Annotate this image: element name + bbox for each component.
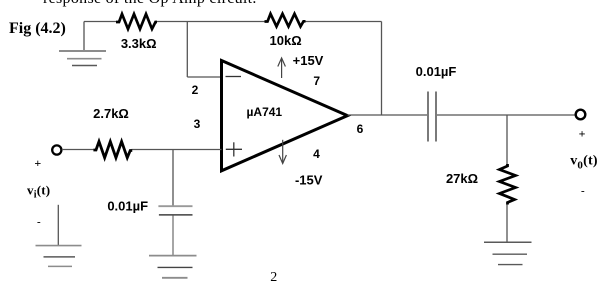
svg-text:2.7kΩ: 2.7kΩ <box>93 106 129 121</box>
svg-text:+: + <box>34 156 41 170</box>
svg-text:7: 7 <box>313 74 320 88</box>
svg-text:0.01µF: 0.01µF <box>416 64 457 79</box>
svg-text:-15V: -15V <box>295 173 323 188</box>
svg-text:2: 2 <box>270 270 277 285</box>
svg-text:2: 2 <box>192 83 199 97</box>
svg-text:3: 3 <box>194 117 201 131</box>
svg-text:4: 4 <box>313 147 320 161</box>
svg-text:-: - <box>581 185 585 197</box>
svg-text:3.3kΩ: 3.3kΩ <box>121 36 157 51</box>
svg-text:27kΩ: 27kΩ <box>446 171 478 186</box>
svg-text:vi(t): vi(t) <box>27 182 50 200</box>
svg-text:10kΩ: 10kΩ <box>270 33 302 48</box>
svg-text:0.01µF: 0.01µF <box>107 199 148 214</box>
svg-text:response of the Op Amp circuit: response of the Op Amp circuit. <box>43 0 257 7</box>
svg-text:+15V: +15V <box>293 53 324 68</box>
svg-text:µA741: µA741 <box>247 105 283 119</box>
svg-text:+: + <box>579 126 586 140</box>
svg-text:6: 6 <box>357 122 364 136</box>
svg-text:v0(t): v0(t) <box>570 154 598 172</box>
svg-text:Fig (4.2): Fig (4.2) <box>9 20 66 37</box>
svg-text:-: - <box>37 216 41 228</box>
